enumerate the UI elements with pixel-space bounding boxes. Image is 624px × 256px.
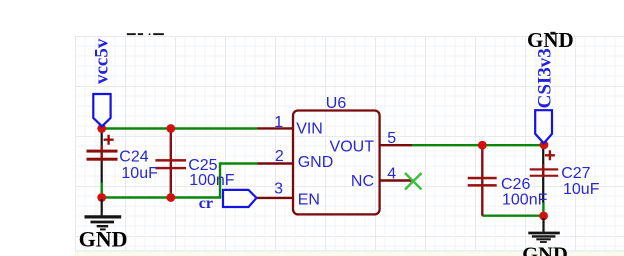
svg-text:5: 5 bbox=[387, 130, 396, 147]
svg-text:VOUT: VOUT bbox=[330, 138, 375, 155]
svg-text:vcc5v: vcc5v bbox=[92, 38, 113, 84]
svg-text:1: 1 bbox=[274, 114, 283, 131]
svg-text:GND: GND bbox=[298, 154, 334, 171]
svg-text:C27: C27 bbox=[561, 165, 590, 182]
svg-text:NC: NC bbox=[351, 173, 374, 190]
svg-text:C24: C24 bbox=[119, 148, 148, 165]
svg-text:cr: cr bbox=[199, 195, 213, 212]
svg-text:4: 4 bbox=[387, 166, 396, 183]
svg-text:U6: U6 bbox=[326, 95, 347, 112]
svg-text:10uF: 10uF bbox=[121, 165, 158, 182]
svg-text:GND: GND bbox=[522, 244, 568, 256]
svg-text:100nF: 100nF bbox=[502, 191, 548, 208]
svg-text:3: 3 bbox=[274, 181, 283, 198]
svg-text:VIN: VIN bbox=[296, 121, 323, 138]
svg-text:CSI3v3: CSI3v3 bbox=[535, 48, 556, 108]
svg-text:10uF: 10uF bbox=[563, 181, 600, 198]
svg-text:2: 2 bbox=[275, 148, 284, 165]
svg-text:EN: EN bbox=[298, 191, 320, 208]
svg-text:GND: GND bbox=[79, 226, 128, 251]
svg-text:100nF: 100nF bbox=[189, 172, 235, 189]
